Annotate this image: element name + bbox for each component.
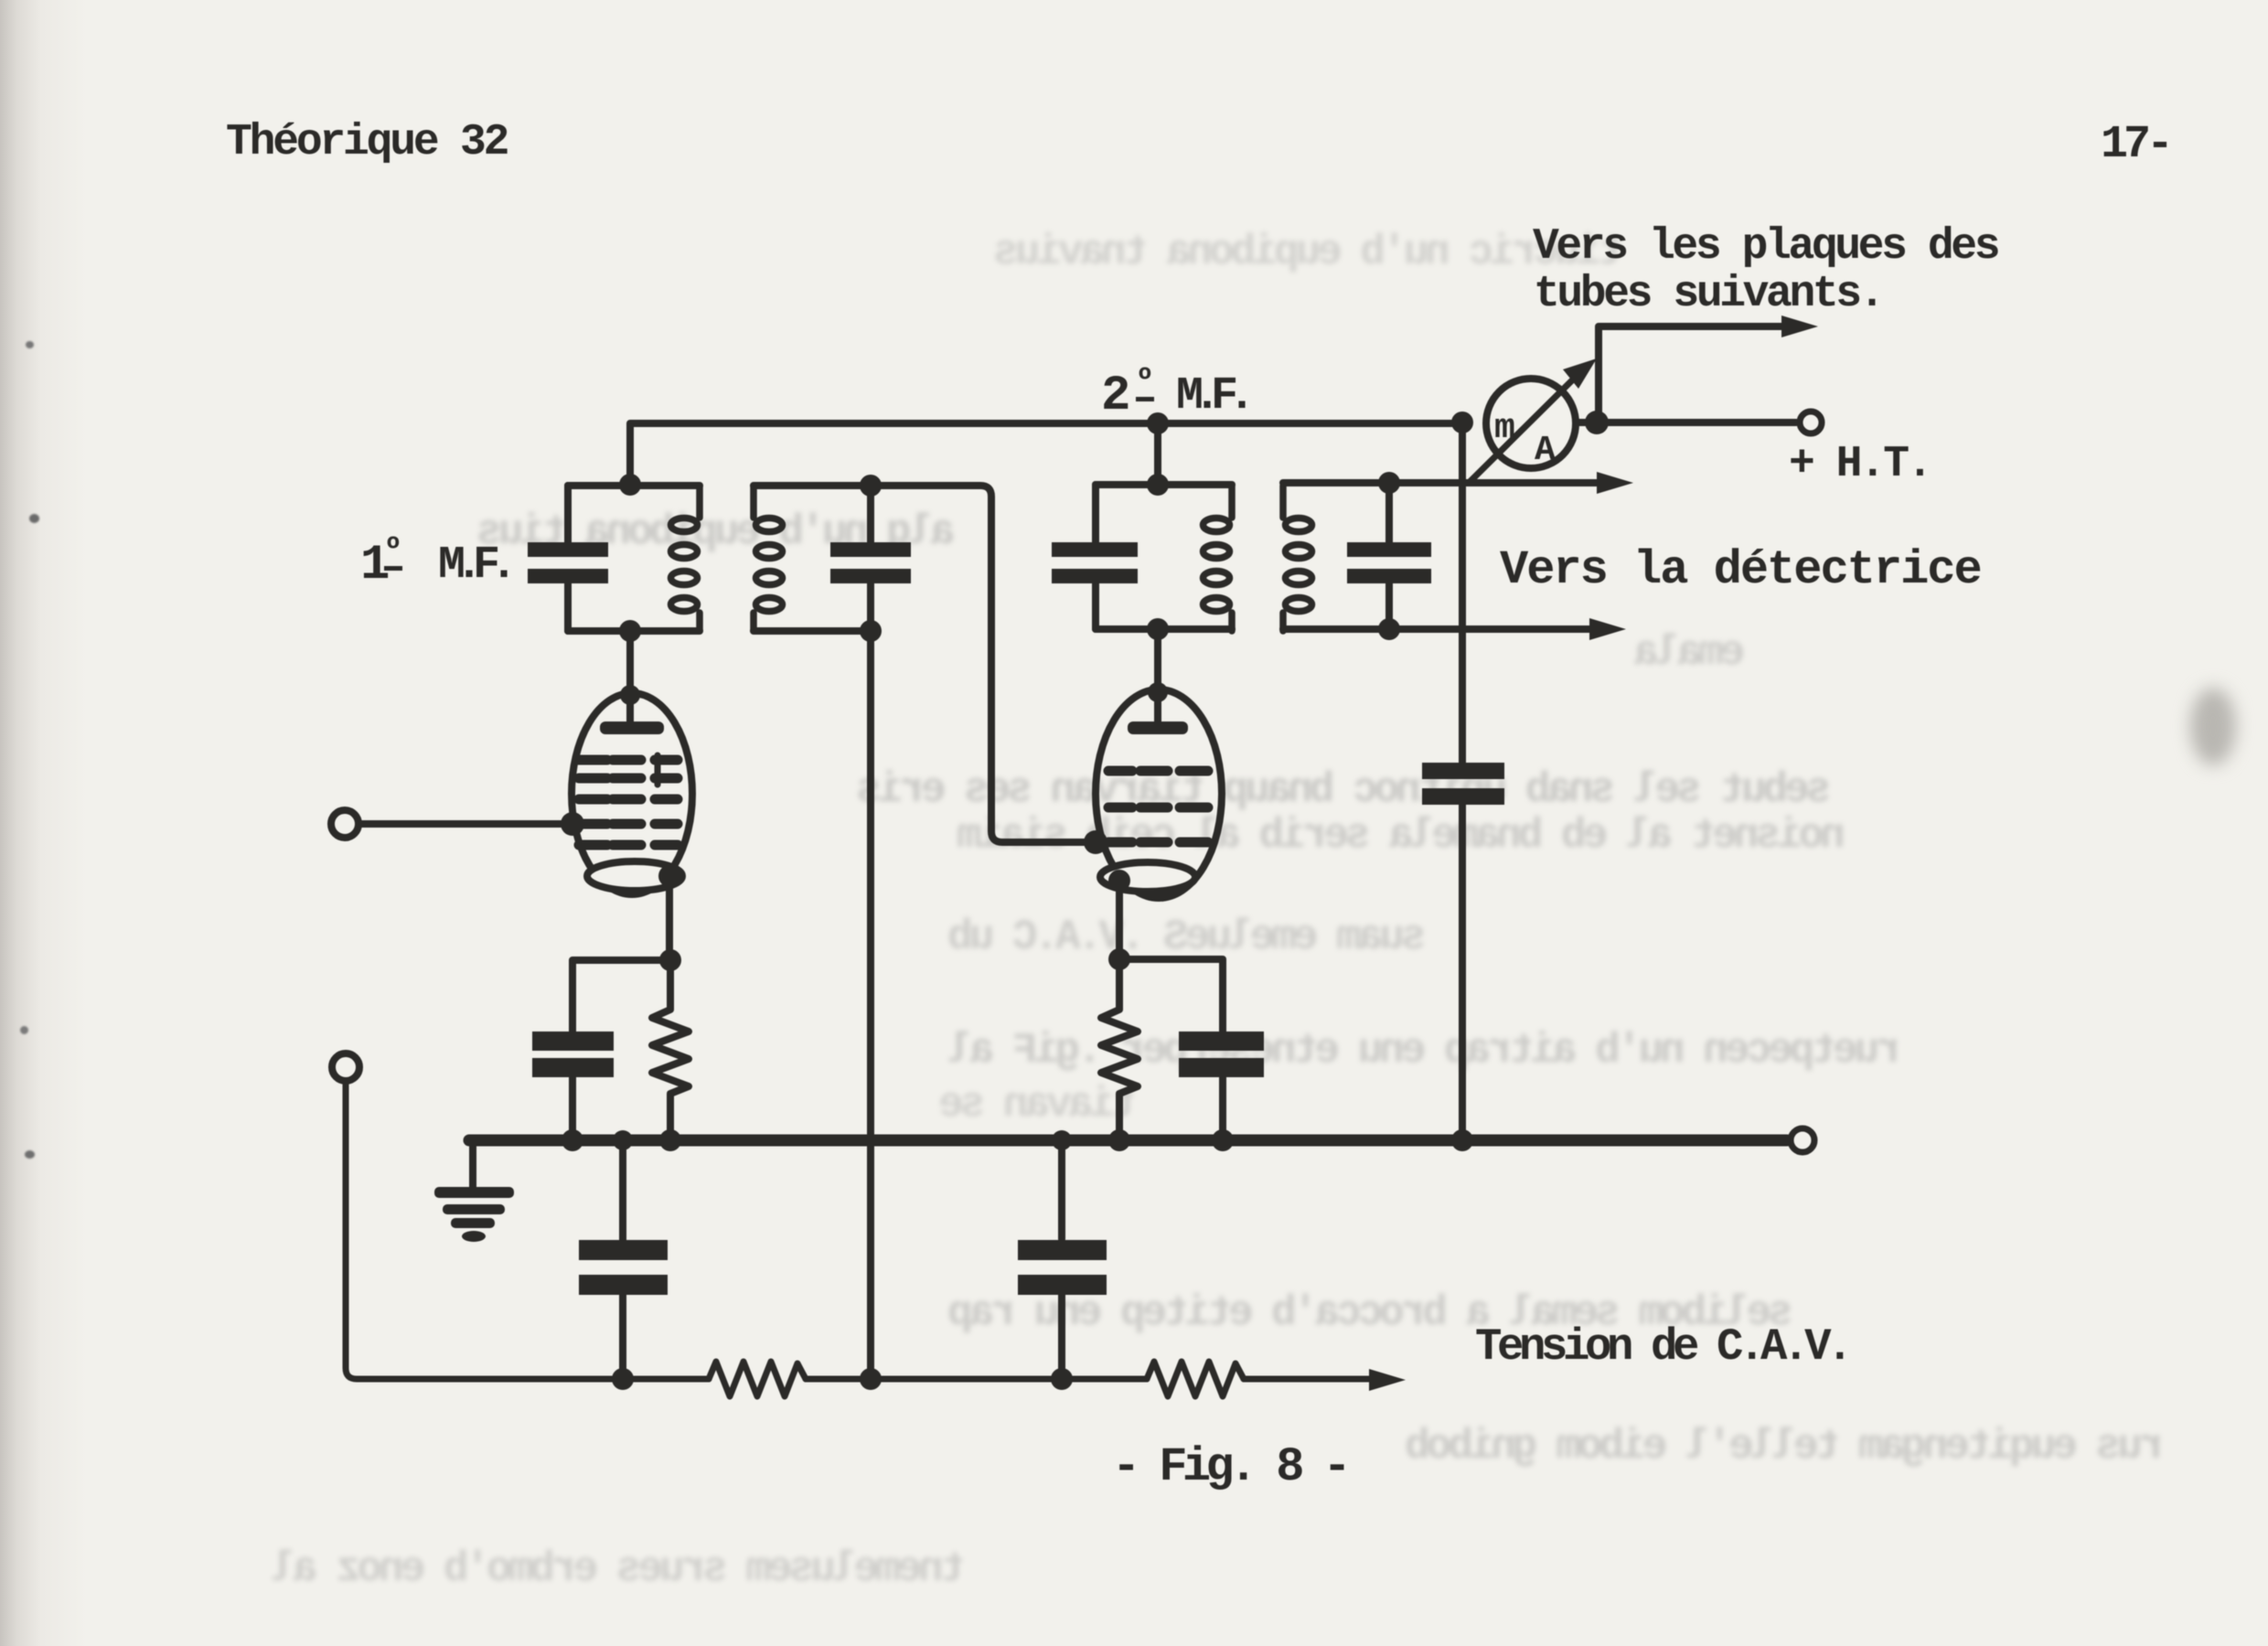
arrowhead following plates <box>1781 315 1818 337</box>
wire plate lead tube V2 <box>1154 629 1161 724</box>
tube V1 <box>572 693 692 894</box>
wire to detector upper arrow <box>1283 479 1602 486</box>
svg-text:- Fig. 8 -: - Fig. 8 - <box>1112 1440 1346 1494</box>
wire 1st MF primary loop bottom <box>568 627 700 635</box>
node tank2 bottom <box>1147 618 1169 640</box>
capacitor C8 (AVC decoupling V1) <box>579 1240 668 1379</box>
svg-text:º: º <box>1136 364 1154 398</box>
node bus R2 <box>1108 1129 1130 1151</box>
resistor R3 (AVC filter 1) <box>709 1362 806 1396</box>
resistor R2 (cathode V2) <box>1101 959 1138 1140</box>
node sec1 bottom <box>860 620 882 642</box>
node cathode junction V1 <box>659 949 681 971</box>
capacitor C5 (B+ decoupling) <box>1422 763 1504 1140</box>
svg-text:M.F.: M.F. <box>438 540 508 592</box>
node sec2 top <box>1378 472 1400 494</box>
label 1e MF <box>360 533 508 593</box>
wire B+ rail <box>630 423 1462 485</box>
svg-text:A: A <box>1535 431 1556 470</box>
svg-text:Théorique 32: Théorique 32 <box>226 118 508 167</box>
wire cathode V2 down <box>1116 881 1123 959</box>
terminal bus right <box>1791 1128 1814 1152</box>
wire grid lead V1 <box>358 820 572 828</box>
svg-text:tubes suivants.: tubes suivants. <box>1534 270 1882 319</box>
node bus C7 <box>1212 1129 1234 1151</box>
node bus C8 <box>613 1130 633 1150</box>
wire AVC branch V2 upper <box>1058 1146 1065 1239</box>
wire to following plates arrow <box>1599 326 1783 422</box>
node sec2 bottom <box>1378 618 1400 640</box>
wire secondary return down to AVC line <box>867 631 874 1379</box>
meter M1 milliammeter <box>1470 358 1597 482</box>
node rail-tank2 <box>1147 412 1169 434</box>
node tank2 top <box>1147 474 1169 496</box>
tube V2 <box>1096 689 1222 898</box>
svg-text:Vers les plaques des: Vers les plaques des <box>1533 222 1998 272</box>
node cathode V2 <box>1108 870 1130 892</box>
terminal input AVC <box>332 1053 359 1081</box>
capacitor C4 (2nd MF secondary tuning) <box>1347 483 1431 629</box>
paper specks on left edge <box>26 341 34 348</box>
wire cathode V2 branch to bypass cap <box>1119 959 1223 1031</box>
resistor R4 (AVC filter 2) <box>1147 1362 1244 1396</box>
node meter-right <box>1585 411 1609 434</box>
wire cathode V1 down <box>666 878 673 960</box>
svg-text:º: º <box>384 533 402 567</box>
svg-text:17-: 17- <box>2101 119 2169 171</box>
terminal input grid V1 <box>331 810 358 838</box>
coil L2 (1st MF secondary) <box>754 486 783 631</box>
node grid V1 <box>561 812 584 836</box>
wire AVC branch V1 upper <box>619 1146 626 1241</box>
node rail-meter <box>1451 411 1473 433</box>
svg-text:Vers la détectrice: Vers la détectrice <box>1500 543 1981 597</box>
node sec1 top <box>860 475 882 497</box>
wire 2nd MF primary loop top <box>1096 481 1232 488</box>
wire AVC line to arrow <box>1244 1376 1372 1383</box>
wire AVC line left leg <box>346 1081 709 1379</box>
capacitor C9 (AVC decoupling V2) <box>1018 1240 1107 1379</box>
node bus C6 <box>562 1129 583 1151</box>
wire ground bus <box>469 1135 1787 1147</box>
coil L4 (2nd MF secondary) <box>1283 486 1312 631</box>
node AVC return <box>860 1368 882 1390</box>
node grid V2 <box>1084 830 1107 854</box>
wire 1st MF primary loop top <box>568 482 700 489</box>
label 2e MF <box>1101 364 1246 424</box>
svg-text:Tension de C.A.V.: Tension de C.A.V. <box>1475 1321 1848 1373</box>
wire 1st MF secondary top to grid corner <box>754 486 1096 842</box>
node bus R1 <box>659 1129 681 1151</box>
node plate top V1 <box>620 685 640 705</box>
capacitor C2 (1st MF secondary tuning) <box>830 486 911 631</box>
resistor R1 (cathode V1) <box>652 960 689 1140</box>
svg-text:2: 2 <box>1101 369 1129 424</box>
wire to detector lower arrow <box>1283 625 1595 633</box>
terminal +HT <box>1800 411 1822 433</box>
wire plate lead tube V1 <box>626 631 634 724</box>
arrowhead detector lower <box>1589 618 1626 640</box>
capacitor C7 (cathode bypass V2) <box>1179 1031 1264 1140</box>
node tank1 bottom <box>619 620 641 642</box>
capacitor C3 (2nd MF primary tuning) <box>1052 485 1138 629</box>
coil L1 (1st MF primary) <box>671 486 701 631</box>
wire 2nd MF primary loop bottom <box>1096 625 1232 633</box>
ghost bleed-through text lines <box>997 229 1623 276</box>
node plate top V2 <box>1148 682 1168 702</box>
wire meter to +HT terminal <box>1576 419 1796 426</box>
capacitor C1 (1st MF primary tuning) <box>528 486 608 631</box>
coil L3 (2nd MF primary) <box>1204 486 1233 631</box>
node AVC C9 <box>1051 1368 1073 1390</box>
svg-text:+ H.T.: + H.T. <box>1789 440 1931 489</box>
node cathode V1 <box>658 865 680 887</box>
node AVC C8 <box>612 1368 634 1390</box>
svg-text:M.F.: M.F. <box>1176 370 1246 422</box>
wire AVC line middle <box>806 1376 1147 1383</box>
arrowhead detector upper <box>1597 472 1633 494</box>
wire feed to 2nd MF primary <box>1154 423 1161 485</box>
node bus filter <box>1451 1129 1473 1151</box>
node bus C9 <box>1052 1130 1072 1150</box>
capacitor C6 (cathode bypass V1) <box>532 1031 614 1140</box>
wire 1st MF secondary bottom <box>754 627 871 635</box>
ground <box>434 1146 514 1242</box>
node rail-tank1 <box>619 474 641 496</box>
svg-text:m: m <box>1494 409 1515 448</box>
wire cathode V1 branch to bypass cap <box>572 960 670 1031</box>
arrowhead AVC <box>1369 1369 1406 1391</box>
node cathode junction V2 <box>1108 948 1130 970</box>
wire B+ filter branch down <box>1459 423 1466 763</box>
